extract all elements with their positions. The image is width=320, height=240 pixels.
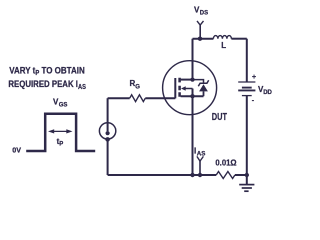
svg-text:G: G (135, 85, 140, 91)
svg-text:0.01Ω: 0.01Ω (215, 159, 237, 168)
svg-text:GS: GS (59, 103, 68, 109)
svg-text:P: P (59, 142, 63, 148)
svg-text:DUT: DUT (212, 112, 227, 123)
svg-text:L: L (221, 41, 226, 50)
svg-text:REQUIRED PEAK IAS: REQUIRED PEAK IAS (8, 79, 86, 91)
svg-text:-: - (252, 98, 255, 105)
svg-text:DD: DD (263, 90, 272, 96)
svg-text:VARY tP TO OBTAIN: VARY tP TO OBTAIN (9, 65, 85, 77)
svg-text:DS: DS (200, 11, 208, 17)
svg-text:AS: AS (197, 151, 206, 158)
svg-text:0V: 0V (12, 145, 21, 154)
svg-text:+: + (252, 74, 256, 81)
